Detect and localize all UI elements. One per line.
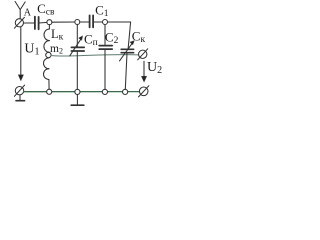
node 1 (junction, top of Lк) [47,20,52,25]
svg-text:m2: m2 [50,43,63,56]
voltage U1 arrow [18,27,23,80]
wire: terminal to Cсв [23,22,35,24]
svg-text:Cп: Cп [84,31,98,48]
svg-text:U2: U2 [147,60,162,76]
antenna A [15,2,25,19]
voltage U2 arrow [141,61,146,82]
wire: C1 to node 3 [93,21,102,23]
bottom rail wire [24,91,140,93]
ground (left) [16,95,25,101]
svg-text:Cк: Cк [132,28,146,45]
ground (under Cп) [71,95,84,105]
svg-text:U1: U1 [24,41,39,57]
svg-text:Cсв: Cсв [37,1,55,18]
wire: node 2 to C1 [80,21,90,23]
node 4 (bottom of Lк) [47,89,52,94]
svg-text:C1: C1 [95,3,109,20]
capacitor Cп (trimmer), branch [70,25,85,90]
tap node m2 on Lк [46,52,51,57]
wire: tap m2 to output terminal [51,55,139,56]
wire: node 3 to Cк corner [108,22,131,49]
node 5 (bottom of Cп) [75,89,80,94]
svg-text:Lк: Lк [51,27,64,43]
terminal: output top [138,49,148,60]
node 7 (bottom of Cк) [123,89,128,94]
terminal: output bottom [139,86,149,97]
svg-text:A: A [24,7,32,18]
capacitor C1 [90,15,94,27]
node 3 (junction, top of C2) [103,20,108,25]
capacitor Cк (variable), branch [120,41,135,90]
inductor Lк [43,25,49,90]
capacitor Cсв [35,17,39,30]
node 6 (bottom of C2) [102,89,107,94]
wire: node 1 to node 2 [52,21,75,23]
terminal: bottom left [14,85,24,96]
capacitor C2, branch [99,25,112,90]
wire: Cсв to node 1 [39,21,47,24]
node 2 (junction, top of Cп) [75,20,80,25]
terminal: antenna input [14,17,24,28]
svg-text:C2: C2 [105,29,119,46]
